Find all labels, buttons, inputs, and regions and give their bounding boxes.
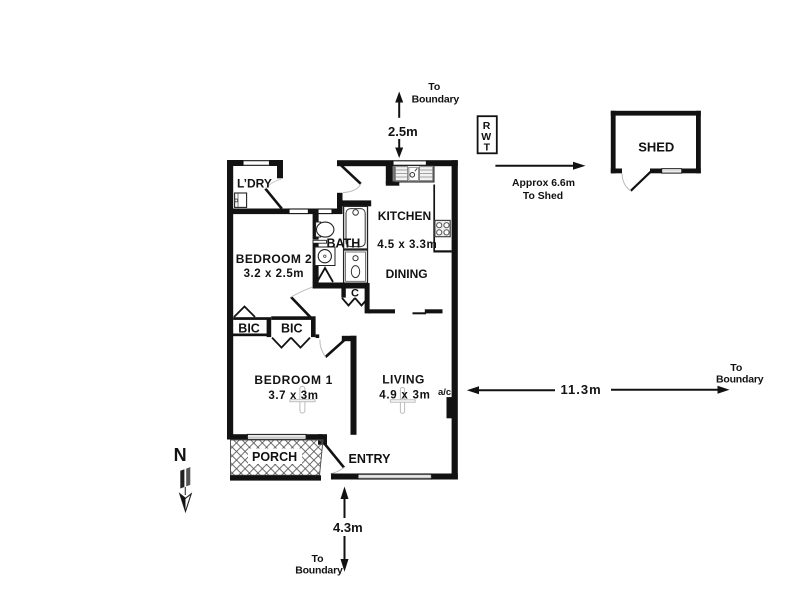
svg-text:Boundary: Boundary — [716, 374, 764, 386]
svg-text:3.7 x 3m: 3.7 x 3m — [268, 390, 318, 402]
svg-text:To: To — [730, 362, 742, 374]
wall kitchen top with window — [337, 160, 458, 166]
window bottom — [358, 474, 432, 479]
door mark bath (V) — [317, 268, 333, 282]
window kitchen top — [393, 161, 426, 166]
wall L'DRY right — [277, 160, 283, 178]
light cross living — [390, 388, 415, 414]
svg-text:2.5m: 2.5m — [388, 124, 418, 139]
svg-text:Boundary: Boundary — [295, 565, 343, 577]
svg-text:11.3m: 11.3m — [561, 382, 602, 397]
north arrow — [180, 467, 191, 511]
shower/wc unit below tub — [344, 250, 368, 283]
wall bath bottom — [313, 283, 368, 289]
svg-text:PORCH: PORCH — [252, 450, 297, 464]
window porch — [248, 434, 307, 439]
svg-text:C: C — [351, 288, 359, 300]
svg-text:BEDROOM 2: BEDROOM 2 — [236, 252, 312, 266]
door arc entry — [331, 468, 345, 474]
door leaf entry — [324, 443, 344, 468]
dimension arrow down to wall — [395, 139, 403, 158]
arrow to shed — [495, 162, 585, 170]
toilet — [316, 222, 334, 237]
window notch right — [318, 209, 332, 214]
door arc bedroom2 — [291, 287, 312, 297]
wall L'DRY top with window — [227, 160, 283, 166]
shed walls — [611, 111, 701, 174]
window notch left — [289, 209, 308, 214]
svg-text:To Shed: To Shed — [523, 191, 563, 202]
svg-text:3.2 x 2.5m: 3.2 x 2.5m — [244, 268, 304, 280]
closet C walls — [341, 283, 369, 313]
door leaf L'DRY — [265, 189, 282, 209]
svg-text:To: To — [428, 81, 440, 93]
door marks closet C — [342, 298, 355, 306]
wall bedroom1 top stub — [342, 336, 357, 341]
dimension arrow 4.3m down — [341, 536, 349, 572]
shed door leaf — [631, 171, 652, 191]
wall kitchen nib — [386, 165, 400, 186]
wall bedroom2 top with two windows — [227, 209, 342, 215]
svg-text:BATH: BATH — [327, 237, 361, 251]
bathtub — [344, 206, 368, 249]
svg-text:BIC: BIC — [238, 321, 260, 335]
kitchen counter line right — [433, 185, 451, 253]
a/c unit — [447, 397, 454, 418]
wall bath left — [313, 214, 319, 283]
svg-text:4.9 x 3m: 4.9 x 3m — [379, 390, 430, 402]
dimension arrow up (2.5m to boundary) — [395, 92, 403, 118]
svg-text:N: N — [174, 445, 187, 465]
shed door arc — [622, 173, 631, 191]
door mark BIC1 — [234, 307, 255, 318]
svg-text:ENTRY: ENTRY — [349, 452, 392, 466]
door arc bedroom1 — [320, 340, 326, 358]
light cross bedroom1 — [290, 386, 315, 413]
svg-text:To: To — [312, 553, 324, 565]
wall kitchen left — [337, 193, 343, 214]
door leaf bedroom1 — [326, 337, 348, 357]
svg-text:BEDROOM 1: BEDROOM 1 — [254, 373, 333, 387]
wall dining/living divider — [368, 309, 443, 314]
svg-text:4.3m: 4.3m — [333, 520, 363, 535]
porch slab hatch — [231, 440, 324, 475]
dimension arrow 4.3m up — [341, 487, 349, 519]
window L'DRY top — [243, 161, 270, 166]
wall stub above bathtub — [337, 200, 371, 206]
svg-text:T: T — [484, 142, 491, 154]
svg-text:L’DRY: L’DRY — [237, 176, 272, 190]
stove — [435, 220, 450, 236]
laundry trough — [235, 193, 247, 207]
svg-text:a/c: a/c — [438, 387, 451, 398]
svg-text:4.5 x 3.3m: 4.5 x 3.3m — [377, 239, 437, 251]
svg-text:BIC: BIC — [281, 321, 303, 335]
svg-text:DINING: DINING — [386, 267, 428, 281]
svg-text:Approx 6.6m: Approx 6.6m — [512, 178, 575, 189]
door leaf kitchen — [341, 165, 361, 183]
svg-text:SHED: SHED — [638, 140, 674, 155]
svg-text:KITCHEN: KITCHEN — [378, 209, 431, 223]
shed window — [662, 169, 682, 173]
svg-text:LIVING: LIVING — [382, 372, 424, 386]
dimension 11.3m arrows — [467, 386, 555, 394]
wall bottom with window — [331, 474, 458, 480]
vanity basin — [315, 247, 335, 266]
wall left exterior — [227, 160, 233, 440]
door leaf bedroom2 — [291, 297, 311, 317]
kitchen sink bench — [394, 165, 434, 182]
porch bottom edge — [230, 475, 321, 480]
door arc kitchen — [343, 184, 361, 193]
closet BIC2 — [271, 316, 319, 338]
wall bedroom1 right — [351, 336, 357, 435]
door marks BIC2 — [272, 338, 291, 348]
bath niche shelf — [313, 240, 327, 243]
wall porch top with window — [227, 434, 327, 445]
rainwater tank RWT — [478, 116, 497, 153]
wall right exterior — [452, 160, 458, 479]
closet BIC1 — [230, 317, 271, 337]
svg-text:Boundary: Boundary — [412, 94, 460, 106]
